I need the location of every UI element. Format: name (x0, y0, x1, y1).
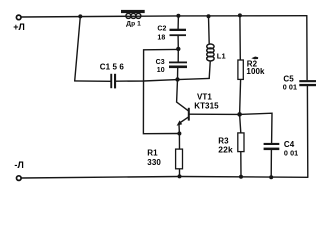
svg-text:KT315: KT315 (194, 102, 219, 111)
wire base lead to R2/R3 cross and C4 (190, 113, 272, 143)
wire R3 bottom lead (240, 152, 242, 177)
wire C3 bottom lead to node (177, 68, 179, 80)
adjustment arrow at R2 (251, 57, 258, 60)
transistor VT1 emitter arrowhead (177, 120, 183, 125)
wire right side upper (rail corner down to C5) (306, 16, 308, 80)
junction dot R3/bottom rail (239, 175, 243, 179)
junction dot rail/R2 (238, 13, 242, 17)
wire R1 bottom lead (179, 169, 181, 177)
wire C4 bottom lead (270, 150, 272, 177)
wire right side lower (C5 down to bottom rail corner) (306, 86, 308, 177)
svg-text:Др 1: Др 1 (126, 21, 141, 28)
wire C1 left lead (75, 80, 111, 82)
node A junction dot (78, 14, 82, 18)
svg-text:0 01: 0 01 (283, 83, 297, 92)
terminal +L (16, 15, 21, 20)
junction dot C2/C3 midpoint (176, 47, 180, 51)
wire emitter diagonal (180, 117, 189, 123)
junction dot R1/bottom rail (178, 174, 182, 178)
capacitor C4 plates (264, 143, 280, 145)
wire C1 right lead to node and L1 bottom corner (116, 78, 209, 81)
svg-text:330: 330 (147, 158, 161, 167)
svg-text:C3: C3 (156, 59, 165, 66)
choke Dr1 coil (126, 13, 141, 18)
capacitor C3 plates (169, 62, 187, 64)
wire R3 top lead (240, 114, 241, 132)
junction dot C4/bottom rail (269, 175, 273, 179)
svg-text:0 01: 0 01 (284, 149, 298, 158)
resistor R3 (238, 133, 244, 152)
terminal -L (17, 176, 22, 181)
svg-text:-Л: -Л (14, 160, 24, 170)
junction dot node C1/C3/L1/collector (175, 77, 179, 81)
svg-text:R1: R1 (147, 149, 158, 158)
svg-text:+Л: +Л (13, 22, 25, 32)
transistor VT1 base bar (188, 108, 190, 121)
svg-text:VT1: VT1 (197, 93, 212, 102)
svg-text:L1: L1 (217, 51, 226, 60)
wire feedback tap from C2/C3 midpoint to emitter (143, 49, 179, 133)
wire top rail (22, 16, 307, 17)
inductor L1 coil (207, 44, 214, 61)
junction dot rail/L1 (207, 14, 211, 18)
wire emitter down to R1 (178, 124, 181, 149)
capacitor C5 plates (299, 80, 316, 82)
svg-text:10: 10 (157, 67, 165, 74)
wire R2 top lead from rail (239, 16, 241, 61)
wire L1 bottom lead (209, 62, 210, 79)
svg-text:22k: 22k (218, 144, 233, 154)
wire collector lead (177, 80, 189, 111)
junction dot emitter/tap (177, 132, 181, 136)
capacitor C2 plates (170, 29, 187, 31)
choke Dr1 core bar (121, 10, 145, 13)
capacitor C1 plates (110, 74, 112, 88)
wire L1 top lead from rail (208, 16, 211, 44)
svg-text:C2: C2 (157, 26, 166, 33)
svg-text:18: 18 (157, 35, 165, 42)
wire R2 bottom lead to base line (240, 79, 241, 114)
resistor R2 (238, 60, 243, 79)
resistor R1 (176, 149, 183, 169)
wire C2-C3 midpoint segment (177, 36, 179, 62)
svg-text:C1 5 6: C1 5 6 (100, 63, 125, 72)
wire from junction A down to C1 (75, 16, 81, 81)
junction dot base/R2/R3/C4 cross (237, 112, 242, 117)
svg-text:100k: 100k (246, 67, 265, 76)
wire bottom rail (22, 177, 308, 179)
wire C2 top lead from rail (177, 16, 179, 29)
junction dot rail/C2 column (176, 14, 180, 18)
